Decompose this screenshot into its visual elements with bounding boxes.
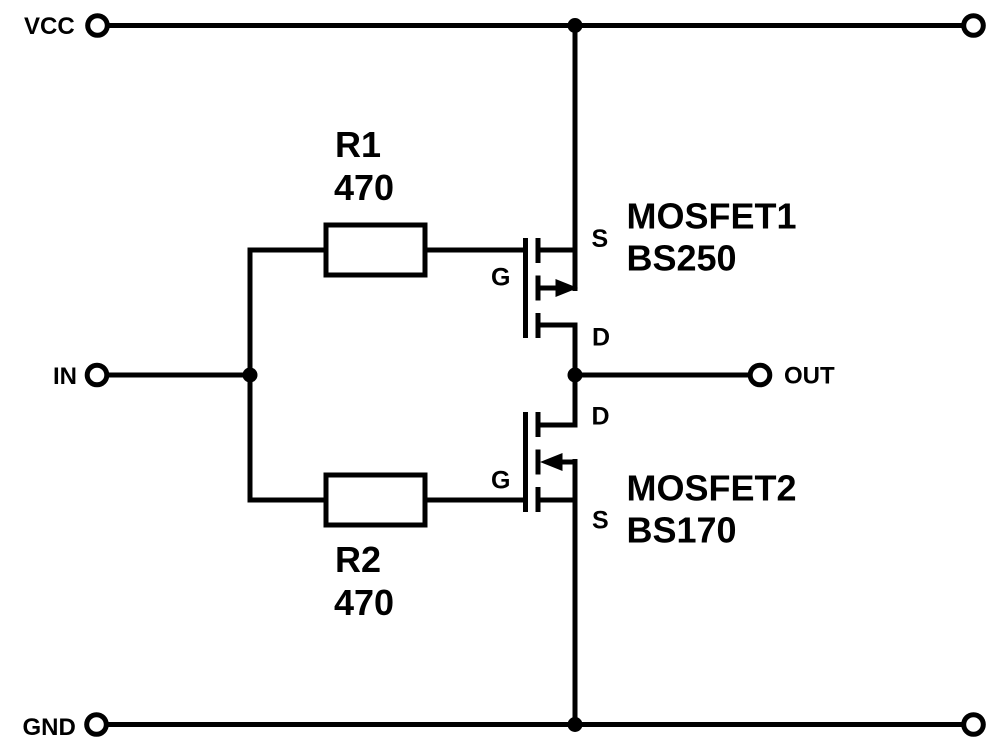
wire node A to R2	[248, 498, 327, 503]
wire VCC to M1 source	[573, 26, 578, 292]
svg-text:IN: IN	[53, 363, 77, 390]
resistor R1	[326, 225, 425, 275]
terminal VCC left	[88, 16, 108, 36]
junction VCC rail / M1 source	[568, 18, 583, 33]
junction node OUT	[568, 368, 583, 383]
svg-text:BS170: BS170	[627, 510, 737, 551]
wire R1 to M1 gate	[425, 248, 523, 253]
wire node A vertical branch	[248, 250, 253, 500]
wire GND rail	[109, 722, 962, 727]
resistor R2	[326, 475, 425, 525]
junction GND rail / M2 source	[568, 717, 583, 732]
svg-text:R2: R2	[335, 539, 381, 580]
svg-text:470: 470	[334, 167, 394, 208]
wire R2 to M2 gate	[425, 498, 523, 503]
svg-text:G: G	[491, 467, 510, 495]
terminal GND right	[964, 715, 984, 735]
wire VCC rail	[109, 23, 962, 28]
junction node A	[243, 368, 258, 383]
wire M2 source to GND	[573, 459, 578, 725]
svg-text:D: D	[592, 403, 610, 431]
terminal GND left	[87, 715, 107, 735]
wire node OUT to OUT terminal	[575, 373, 748, 378]
transistor M1 PMOS BS250 symbol	[526, 238, 579, 338]
terminal IN	[87, 365, 107, 385]
svg-text:MOSFET1: MOSFET1	[627, 196, 797, 237]
svg-text:D: D	[592, 324, 610, 352]
svg-text:S: S	[592, 225, 609, 253]
terminal VCC right	[964, 16, 984, 36]
svg-text:R1: R1	[335, 124, 381, 165]
svg-text:BS250: BS250	[627, 238, 737, 279]
svg-text:OUT: OUT	[784, 363, 835, 390]
svg-text:MOSFET2: MOSFET2	[627, 468, 797, 509]
svg-text:470: 470	[334, 582, 394, 623]
svg-text:G: G	[491, 264, 510, 292]
svg-text:VCC: VCC	[24, 13, 75, 40]
svg-text:GND: GND	[23, 714, 76, 741]
transistor M2 NMOS BS170 symbol	[526, 412, 578, 512]
wire node OUT to M2 drain	[573, 375, 578, 428]
terminal OUT	[750, 365, 770, 385]
wire M1 drain to node OUT	[573, 323, 578, 376]
wire IN to node A	[108, 373, 253, 378]
svg-text:S: S	[592, 507, 609, 535]
wire node A to R1	[248, 248, 327, 253]
